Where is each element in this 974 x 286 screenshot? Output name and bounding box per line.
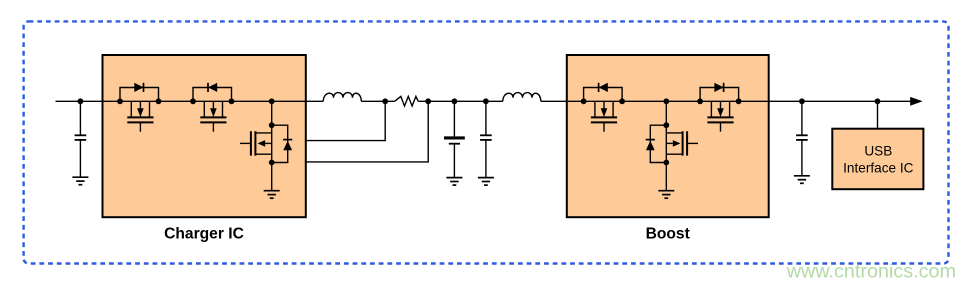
node MOSFET Q1 right — [156, 98, 162, 104]
output arrowhead — [910, 97, 922, 106]
wire main power bus segment 3 — [418, 100, 503, 102]
node bus tap MOSFET Q6 — [663, 98, 669, 104]
wire sense+ (node before Rsense to Charger IC) — [306, 101, 385, 140]
node Rsense output — [425, 98, 431, 104]
D6 body diode — [646, 140, 655, 151]
node SW/L1 output — [382, 98, 388, 104]
node capacitor C_out top — [799, 98, 805, 104]
svg-text:USB: USB — [864, 144, 892, 159]
wire sense- (node after Rsense to Charger IC) — [306, 101, 428, 162]
node MOSFET Q2 left — [190, 98, 196, 104]
node MOSFET Q6 source — [663, 160, 669, 166]
wire bus to USB Interface IC — [877, 101, 879, 128]
D4 body diode — [599, 83, 608, 92]
node MOSFET Q4 right — [619, 98, 625, 104]
MOSFET Q3 vertical MOSFET — [240, 101, 288, 190]
node MOSFET Q2 right — [229, 98, 235, 104]
MOSFET Q1 (diode right) — [120, 88, 159, 132]
capacitor C2 — [480, 101, 492, 177]
wire main power bus segment 1 — [56, 100, 324, 102]
resistor R_sense — [395, 96, 419, 106]
wire main power bus segment 4 — [541, 100, 913, 102]
capacitor C_out — [796, 101, 808, 176]
svg-text:Boost: Boost — [646, 226, 690, 243]
Charger IC block box — [103, 55, 306, 217]
USB Interface IC box — [832, 129, 923, 190]
node MOSFET Q6 drain — [663, 122, 669, 128]
node MOSFET Q4 left — [581, 98, 587, 104]
node MOSFET Q3 source — [269, 160, 275, 166]
inductor L2 — [503, 93, 541, 102]
D2 body diode — [208, 83, 217, 92]
inductor L1 — [323, 93, 361, 102]
capacitor C_bulk (bulk, thick plate) — [444, 101, 465, 177]
node MOSFET Q5 left — [697, 98, 703, 104]
svg-text:Charger IC: Charger IC — [164, 226, 244, 243]
MOSFET Q5 (diode right) — [700, 88, 739, 132]
ground of capacitor C2 — [478, 178, 494, 186]
MOSFET Q4 (diode left) — [584, 88, 623, 132]
node bus tap MOSFET Q3 — [269, 98, 275, 104]
MOSFET Q6 vertical MOSFET — [650, 101, 698, 190]
D5 body diode — [714, 83, 723, 92]
node capacitor C2 top — [483, 98, 489, 104]
ground under MOSFET Q6 — [658, 191, 674, 199]
svg-text:Interface IC: Interface IC — [843, 161, 913, 176]
node MOSFET Q3 drain — [269, 122, 275, 128]
node MOSFET Q5 right — [736, 98, 742, 104]
wire main power bus segment 2 — [361, 100, 394, 102]
node capacitor C_bulk top — [452, 98, 458, 104]
MOSFET Q2 (diode left) — [193, 88, 232, 132]
svg-text:www.cntronics.com: www.cntronics.com — [786, 261, 956, 283]
D3 body diode — [283, 140, 292, 151]
ground of capacitor C_bulk — [446, 178, 462, 186]
node MOSFET Q1 left — [117, 98, 123, 104]
ground of capacitor C_in — [72, 177, 88, 185]
capacitor C_in — [75, 101, 87, 177]
D1 body diode — [134, 83, 143, 92]
node USB tap — [875, 98, 881, 104]
node capacitor C_in top — [78, 98, 84, 104]
ground of capacitor C_out — [794, 176, 810, 184]
ground under MOSFET Q3 — [264, 191, 280, 199]
Boost block box — [567, 55, 769, 217]
